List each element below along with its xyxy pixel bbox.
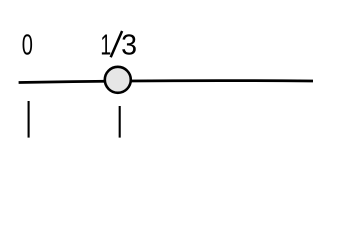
number line bbox=[19, 81, 313, 83]
tick mark at 0 bbox=[28, 101, 30, 138]
svg-text:1: 1 bbox=[100, 30, 111, 62]
svg-text:3: 3 bbox=[121, 30, 137, 62]
svg-text:0: 0 bbox=[22, 30, 33, 61]
label 1/3 fraction slash bbox=[111, 31, 122, 57]
tick mark at 1/3 bbox=[119, 106, 121, 138]
point marker at 1/3 bbox=[105, 67, 131, 93]
